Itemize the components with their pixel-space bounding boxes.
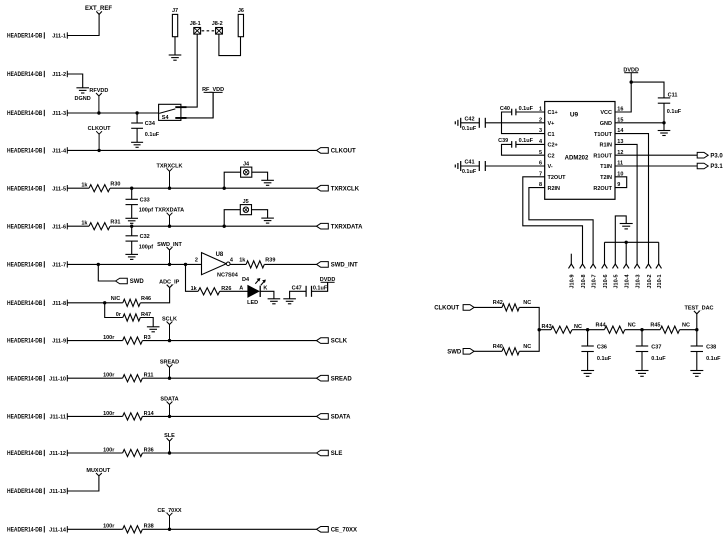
net flag MUXOUT: [96, 473, 102, 476]
resistor R3: [123, 337, 143, 344]
node row6 J5 junction: [223, 225, 226, 228]
ground under J5: [261, 217, 274, 219]
svg-text:1k: 1k: [239, 257, 246, 263]
svg-text:TXRXDATA: TXRXDATA: [155, 208, 184, 214]
svg-text:0.1uF: 0.1uF: [313, 285, 328, 291]
node DVDD junction: [630, 80, 633, 83]
svg-text:R45: R45: [650, 323, 660, 329]
svg-text:TXRXCLK: TXRXCLK: [331, 186, 360, 192]
ground under C33: [125, 217, 138, 219]
ground under C47: [283, 298, 296, 300]
wire row8 to R47: [105, 303, 123, 318]
output tag TXRXDATA: [317, 223, 329, 229]
wire R11 to SREAD tag: [142, 377, 316, 379]
svg-text:HEADER14-DB: HEADER14-DB: [7, 72, 43, 78]
connector J5: [224, 210, 240, 227]
svg-text:J10-2: J10-2: [647, 274, 653, 288]
connector J10-5 pin: [613, 264, 619, 269]
resistor R14: [123, 413, 143, 420]
svg-text:CLKOUT: CLKOUT: [434, 306, 459, 312]
svg-text:R46: R46: [141, 296, 151, 302]
resistor R42: [502, 304, 519, 311]
svg-text:GND: GND: [600, 121, 612, 127]
node C37 junction: [640, 328, 643, 331]
svg-text:J11-13: J11-13: [49, 489, 66, 495]
wire J10-9 stub: [570, 254, 572, 264]
ground under C34: [131, 141, 143, 143]
svg-text:R2OUT: R2OUT: [593, 186, 612, 192]
ground below U9: [620, 223, 633, 225]
wire LED cathode to ground: [260, 291, 274, 299]
wire row7 to R26: [186, 264, 199, 291]
svg-text:J10-1: J10-1: [657, 274, 663, 288]
svg-text:100pf: 100pf: [139, 244, 154, 250]
svg-text:0.1uF: 0.1uF: [667, 109, 682, 115]
node row9 junction: [168, 339, 171, 342]
wire DVDD to C11: [631, 82, 664, 98]
resistor R44: [604, 326, 624, 333]
svg-text:LED: LED: [247, 300, 258, 306]
net flag TXRXCLK: [167, 168, 173, 171]
connector J10-3 pin: [634, 264, 640, 269]
svg-text:R44: R44: [596, 323, 607, 329]
svg-text:J11-4: J11-4: [52, 149, 67, 155]
svg-text:TEST_DAC: TEST_DAC: [684, 306, 713, 312]
wire C47 to ground: [290, 291, 307, 299]
svg-text:HEADER14-DB: HEADER14-DB: [7, 111, 43, 117]
ground under LED: [268, 298, 281, 300]
node row7 flag junction: [168, 263, 171, 266]
connector J10-2 pin: [646, 264, 652, 269]
wire J8-2 to J6: [219, 34, 241, 56]
svg-text:SREAD: SREAD: [331, 376, 353, 382]
ground bracket near U9: [615, 216, 626, 242]
wire J11-4 to CLKOUT tag: [67, 149, 316, 151]
svg-text:N/C: N/C: [111, 296, 121, 302]
ground DGND: [76, 87, 89, 89]
svg-text:1k: 1k: [81, 183, 88, 189]
svg-text:CLKOUT: CLKOUT: [88, 126, 112, 132]
wire C42 to pin2: [485, 122, 544, 124]
op-amp U8 inverter NC7S04: [202, 253, 227, 275]
svg-text:J10-9: J10-9: [570, 274, 576, 288]
svg-text:NC: NC: [523, 300, 531, 306]
svg-text:C40: C40: [500, 106, 510, 112]
connector J10-8 pin: [580, 264, 586, 269]
capacitor C33: [131, 188, 133, 199]
wire J4 to ground: [252, 172, 268, 180]
svg-text:C33: C33: [140, 197, 150, 203]
svg-text:2: 2: [195, 258, 198, 264]
net flag CE_70XX: [167, 513, 173, 516]
svg-text:HEADER14-DB: HEADER14-DB: [7, 527, 43, 533]
svg-text:C32: C32: [140, 234, 150, 240]
ground under C36: [581, 370, 594, 372]
ground under J7: [169, 54, 182, 56]
net flag ADC_IP: [167, 285, 173, 288]
svg-text:P3.1: P3.1: [710, 164, 723, 170]
svg-text:R42: R42: [493, 300, 503, 306]
svg-text:HEADER14-DB: HEADER14-DB: [7, 376, 43, 382]
wire J11-6 to R31: [67, 225, 89, 227]
node R43 junction: [538, 328, 541, 331]
wire J11-11 to R14: [67, 415, 122, 417]
node row7 SWD junction: [97, 263, 100, 266]
svg-text:SWD_INT: SWD_INT: [331, 263, 358, 269]
svg-text:TXRXCLK: TXRXCLK: [157, 163, 183, 169]
svg-text:R2IN: R2IN: [548, 186, 561, 192]
output tag SWD_INT: [317, 262, 329, 268]
node bus junction: [625, 241, 628, 244]
power flag DVDD: [321, 281, 335, 283]
wire J5 to ground: [252, 210, 268, 218]
connector J10-7 pin: [590, 264, 596, 269]
svg-text:R40: R40: [493, 344, 503, 350]
node C36 junction: [586, 328, 589, 331]
svg-text:0.1uF: 0.1uF: [462, 169, 477, 175]
output tag P3.0: [697, 152, 708, 158]
svg-text:J10-8: J10-8: [581, 274, 587, 288]
wire ground bus: [605, 241, 659, 243]
wire C47 to DVDD: [312, 282, 328, 291]
capacitor C42: [454, 121, 456, 124]
wire T1IN pin11 to P3.1: [615, 165, 697, 167]
node row3 C34 junction: [135, 111, 138, 114]
svg-text:TXRXDATA: TXRXDATA: [331, 224, 363, 230]
wire to SWD tag: [98, 264, 115, 281]
svg-text:V-: V-: [548, 164, 553, 170]
node row5 C33 junction: [130, 187, 133, 190]
LED D4: [248, 286, 259, 297]
svg-text:C1: C1: [548, 132, 555, 138]
net flag SREAD: [167, 364, 173, 367]
svg-text:HEADER14-DB: HEADER14-DB: [7, 415, 43, 421]
svg-text:J11-11: J11-11: [49, 415, 66, 421]
wire T1OUT pin14 to J10-2: [615, 134, 649, 264]
svg-text:J10-5: J10-5: [614, 274, 620, 288]
ground under C11: [658, 130, 671, 132]
node row14 junction: [168, 528, 171, 531]
jumper pad J8-2: [216, 28, 223, 35]
svg-text:J10-4: J10-4: [625, 273, 631, 288]
dashed link J8-1 to J8-2: [202, 30, 215, 32]
net flag TEST_DAC: [694, 311, 700, 314]
svg-text:1k: 1k: [191, 286, 198, 292]
wire VCC pin16 to DVDD: [615, 82, 631, 112]
wire J11-9 to R3: [67, 340, 122, 342]
wire S4 bottom contact to RF_VDD: [187, 92, 214, 118]
svg-text:HEADER14-DB: HEADER14-DB: [7, 339, 43, 345]
capacitor C34: [136, 113, 138, 123]
connector J4: [224, 172, 240, 188]
capacitor C32: [131, 226, 133, 236]
svg-text:A: A: [239, 285, 243, 291]
output tag CE_70XX: [317, 527, 329, 533]
svg-text:0.1uF: 0.1uF: [597, 356, 612, 362]
node row6 C32 junction: [130, 225, 133, 228]
wire J11-8 to R46: [67, 302, 123, 304]
svg-text:SDATA: SDATA: [331, 415, 351, 421]
svg-text:HEADER14-DB: HEADER14-DB: [7, 149, 43, 155]
output tag CLKOUT: [317, 148, 329, 154]
svg-text:C42: C42: [464, 116, 474, 122]
svg-text:0.1uF: 0.1uF: [651, 356, 666, 362]
svg-text:J6: J6: [238, 8, 244, 14]
wire J11-5 to R30: [67, 187, 89, 189]
wire CLKOUT tag to R42: [474, 306, 502, 308]
svg-text:J10-6: J10-6: [603, 274, 609, 288]
svg-text:1k: 1k: [81, 221, 88, 227]
svg-text:C2+: C2+: [548, 143, 558, 149]
output tag TXRXCLK: [317, 185, 329, 191]
net flag EXT_REF: [96, 11, 102, 14]
capacitor C36: [587, 330, 589, 346]
svg-text:K: K: [263, 285, 267, 291]
wire J11-7 to U8 input: [67, 263, 201, 265]
wire R3 to SCLK tag: [142, 340, 316, 342]
svg-text:DGND: DGND: [74, 96, 90, 102]
node C38 junction: [695, 328, 698, 331]
svg-text:J11-1: J11-1: [52, 34, 66, 40]
capacitor C37: [641, 330, 643, 346]
resistor R46: [123, 299, 141, 306]
wire R47 to ground: [140, 318, 153, 327]
svg-text:HEADER14-DB: HEADER14-DB: [7, 451, 43, 457]
svg-text:0.1uF: 0.1uF: [706, 356, 721, 362]
resistor R47: [123, 314, 141, 321]
svg-text:C39: C39: [498, 138, 508, 144]
resistor R38: [123, 526, 143, 533]
output tag SLE: [317, 450, 329, 456]
svg-text:R30: R30: [110, 182, 120, 188]
wire bus to J10-5: [614, 242, 616, 264]
wire C41 to pin6: [485, 165, 544, 167]
svg-text:C34: C34: [145, 121, 156, 127]
svg-text:NC7S04: NC7S04: [217, 273, 239, 279]
svg-text:100r: 100r: [103, 447, 115, 453]
node row6 flag junction: [168, 225, 171, 228]
svg-text:C38: C38: [706, 344, 716, 350]
svg-text:J4: J4: [243, 162, 250, 168]
resistor R36: [123, 449, 143, 456]
svg-text:J11-2: J11-2: [52, 72, 66, 78]
ground under C38: [690, 370, 703, 372]
svg-text:100r: 100r: [103, 524, 115, 530]
LED arrows: [255, 279, 259, 284]
switch S4: [159, 104, 181, 120]
net flag SDATA: [167, 402, 173, 405]
wire J11-10 to R11: [67, 377, 122, 379]
wire R30 to TXRXCLK tag: [110, 187, 317, 189]
svg-text:C11: C11: [668, 92, 678, 98]
svg-text:J8-2: J8-2: [212, 21, 223, 27]
output tag P3.1: [697, 163, 708, 169]
connector J10-9 pin: [569, 264, 575, 269]
capacitor C11: [658, 97, 670, 99]
wire C39 pin4: [516, 143, 545, 145]
svg-text:CLKOUT: CLKOUT: [331, 149, 356, 155]
wire R44 to node C37: [625, 329, 660, 331]
wire T2IN pin10 to R2OUT pin9 jumper: [615, 177, 627, 188]
node row12 junction: [168, 451, 171, 454]
connector J10-4 pin: [623, 264, 629, 269]
svg-text:R43: R43: [542, 324, 552, 330]
svg-text:EXT_REF: EXT_REF: [85, 6, 112, 12]
resistor R40: [502, 348, 519, 355]
node row7 R26 junction: [184, 263, 187, 266]
resistor R43: [551, 326, 572, 333]
svg-text:VCC: VCC: [600, 110, 612, 116]
wire S4 top contact to J8-1: [187, 34, 198, 107]
svg-text:R1IN: R1IN: [599, 143, 612, 149]
wire T2OUT pin7 to J10-8: [523, 177, 583, 264]
svg-text:J8-1: J8-1: [190, 21, 201, 27]
svg-text:DVDD: DVDD: [623, 67, 639, 73]
resistor R26: [198, 288, 220, 295]
svg-text:J11-12: J11-12: [49, 451, 66, 457]
svg-text:J11-3: J11-3: [52, 111, 66, 117]
wire to ground: [663, 123, 665, 131]
node C11 junction: [662, 121, 665, 124]
wire J11-14 to R38: [67, 528, 122, 530]
net flag TXRXDATA: [167, 213, 173, 216]
svg-text:ADM202: ADM202: [565, 156, 589, 162]
svg-text:SCLK: SCLK: [331, 339, 348, 345]
wire R31 to TXRXDATA tag: [110, 225, 317, 227]
svg-text:SCLK: SCLK: [162, 317, 177, 323]
svg-text:HEADER14-DB: HEADER14-DB: [7, 186, 43, 192]
wire GND pin15: [615, 122, 664, 124]
wire R39 to SWD_INT tag: [264, 263, 316, 265]
power flag DVDD top: [624, 72, 638, 74]
svg-text:NC: NC: [682, 323, 690, 329]
output tag SDATA: [317, 414, 329, 420]
svg-text:S4: S4: [162, 115, 170, 121]
svg-text:HEADER14-DB: HEADER14-DB: [7, 224, 43, 230]
capacitor C40: [511, 109, 513, 116]
svg-text:J11-10: J11-10: [49, 376, 66, 382]
svg-text:D4: D4: [242, 277, 250, 283]
net flag SCLK: [167, 322, 173, 325]
svg-text:SREAD: SREAD: [160, 359, 179, 365]
svg-text:SDATA: SDATA: [160, 397, 178, 403]
svg-text:CE_70XX: CE_70XX: [157, 508, 181, 514]
wire R42 to node: [519, 307, 539, 329]
svg-text:100r: 100r: [103, 335, 115, 341]
node row8 junction: [103, 301, 106, 304]
net flag SLE: [167, 438, 173, 441]
svg-text:C2: C2: [548, 153, 555, 159]
wire R45 to node C38: [680, 329, 697, 331]
resistor R11: [123, 375, 143, 382]
svg-text:J10-3: J10-3: [636, 274, 642, 288]
wire J11-12 to R36: [67, 452, 122, 454]
op-amp U9 ADM202 body: [545, 102, 615, 200]
svg-text:J5: J5: [243, 199, 249, 205]
wire R1IN pin13 to J10-3: [615, 144, 637, 264]
svg-text:T1OUT: T1OUT: [594, 132, 613, 138]
resistor R45: [660, 326, 679, 333]
svg-text:NC: NC: [628, 323, 636, 329]
connector J10-6 pin: [602, 264, 608, 269]
capacitor C41: [454, 165, 456, 168]
capacitor C39: [511, 141, 513, 148]
svg-text:0.1uF: 0.1uF: [519, 106, 534, 112]
svg-text:100r: 100r: [103, 373, 115, 379]
svg-text:R1OUT: R1OUT: [593, 153, 612, 159]
node row4 junction: [97, 149, 100, 152]
resistor R30: [89, 185, 110, 192]
svg-text:HEADER14-DB: HEADER14-DB: [7, 263, 43, 269]
node row5 flag junction: [168, 187, 171, 190]
svg-text:T1IN: T1IN: [600, 164, 612, 170]
wire R38 to CE_70XX tag: [142, 528, 316, 530]
net flag RFVDD: [96, 93, 102, 96]
svg-text:R39: R39: [265, 257, 275, 263]
wire J11-3 to S4: [67, 112, 158, 114]
svg-text:100r: 100r: [103, 411, 115, 417]
wire R26 to LED: [220, 290, 248, 292]
svg-text:0r: 0r: [116, 312, 122, 318]
svg-text:R31: R31: [110, 220, 120, 226]
connector J10-1 pin: [656, 264, 662, 269]
connector J6: [238, 14, 243, 36]
node row5 J4 junction: [223, 187, 226, 190]
wire R1OUT pin12 to P3.0: [615, 154, 697, 156]
wire R14 to SDATA tag: [142, 415, 316, 417]
ground under C37: [636, 370, 649, 372]
svg-text:U9: U9: [570, 112, 579, 119]
output tag SCLK: [317, 338, 329, 344]
node row11 junction: [168, 415, 171, 418]
wire SWD tag to R40: [474, 350, 502, 352]
svg-text:CE_70XX: CE_70XX: [331, 527, 357, 533]
svg-text:SWD_INT: SWD_INT: [157, 242, 182, 248]
svg-text:C41: C41: [464, 160, 474, 166]
svg-text:DVDD: DVDD: [320, 277, 336, 283]
svg-text:J11-5: J11-5: [52, 186, 66, 192]
ground under C32: [125, 253, 138, 255]
svg-text:RFVDD: RFVDD: [89, 88, 108, 94]
svg-text:J7: J7: [172, 8, 178, 14]
svg-text:J11-7: J11-7: [52, 263, 66, 269]
svg-text:P3.0: P3.0: [710, 153, 723, 159]
svg-text:T2OUT: T2OUT: [548, 175, 567, 181]
wire J11-2 to DGND: [67, 74, 82, 88]
svg-text:T2IN: T2IN: [600, 175, 612, 181]
wire C40 to pin3: [502, 112, 545, 134]
svg-text:SWD: SWD: [447, 349, 462, 355]
wire bus to J10-1: [658, 242, 660, 264]
svg-text:RF_VDD: RF_VDD: [202, 87, 224, 93]
svg-text:ADC_IP: ADC_IP: [159, 280, 180, 286]
svg-text:SWD: SWD: [130, 279, 145, 285]
svg-text:C37: C37: [651, 344, 661, 350]
connector J7: [172, 14, 177, 36]
svg-text:U8: U8: [216, 252, 224, 258]
output tag SWD: [116, 278, 128, 284]
svg-text:0.1uF: 0.1uF: [519, 138, 534, 144]
wire J7 to ground: [174, 37, 176, 55]
svg-text:SLE: SLE: [331, 451, 343, 457]
wire R46 to ADC_IP: [140, 288, 169, 303]
resistor R39: [230, 263, 246, 265]
svg-text:C47: C47: [292, 285, 302, 291]
svg-text:MUXOUT: MUXOUT: [86, 468, 110, 474]
output tag SREAD: [317, 375, 329, 381]
svg-text:NC: NC: [523, 344, 531, 350]
wire C40 pin1: [516, 111, 545, 113]
